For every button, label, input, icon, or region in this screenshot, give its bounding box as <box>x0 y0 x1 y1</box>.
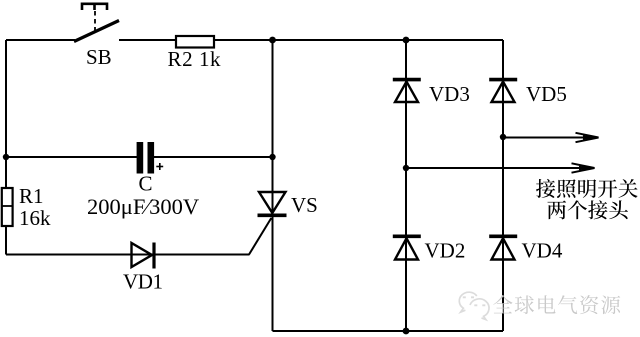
diode VD4 <box>489 236 517 259</box>
watermark logo <box>459 292 489 319</box>
wire: gate lead diagonal <box>249 218 271 255</box>
svg-text:VD5: VD5 <box>526 82 567 106</box>
resistor R2 <box>176 36 214 48</box>
svg-text:16k: 16k <box>19 206 51 230</box>
diode VD2 <box>393 236 421 259</box>
svg-text:VD2: VD2 <box>425 239 466 263</box>
wire: left vertical <box>5 40 7 255</box>
watermark text 全球电气资源 <box>493 295 620 314</box>
svg-text:C: C <box>139 172 153 196</box>
node: junction top rail / VD3 branch <box>403 37 410 44</box>
wire: VD5/VD4 column <box>502 40 504 331</box>
svg-text:VS: VS <box>291 193 318 217</box>
diode VD5 <box>489 80 517 102</box>
wire: top rail left segment <box>6 39 75 41</box>
diode VD3 <box>393 80 421 102</box>
svg-text:VD1: VD1 <box>123 270 163 294</box>
capacitor C plates <box>137 142 155 174</box>
resistor R1 <box>2 188 13 226</box>
svg-text:200μF∕300V: 200μF∕300V <box>87 194 199 219</box>
svg-text:R1: R1 <box>19 184 44 208</box>
wire: VD1 rail <box>6 254 250 256</box>
capacitor polarity + <box>156 163 163 170</box>
svg-text:VD3: VD3 <box>429 82 470 106</box>
svg-text:SB: SB <box>86 45 112 69</box>
svg-text:R2 1k: R2 1k <box>168 47 222 71</box>
wire: top rail right segment <box>119 39 503 41</box>
node: junction VD3 column / output arrow 2 <box>403 165 409 171</box>
wire: output arrow 2 <box>406 163 595 172</box>
wire: output arrow 1 <box>503 133 599 142</box>
node: junction top rail / mid branch <box>269 37 276 44</box>
node: junction bottom rail / VD2 column <box>403 328 410 335</box>
node: junction left vertical / capacitor wire <box>3 154 9 160</box>
thyristor VS <box>258 192 287 215</box>
pushbutton SB <box>74 4 119 42</box>
label 接照明开关 <box>536 179 638 198</box>
svg-text:VD4: VD4 <box>522 239 563 263</box>
wire: VD3/VD2 column <box>405 40 407 331</box>
wire: capacitor rail left <box>6 156 137 158</box>
label 两个接头 <box>547 200 628 219</box>
diode VD1 <box>132 243 155 269</box>
wire: mid vertical through VS <box>272 40 274 331</box>
wire: capacitor rail right <box>154 156 273 158</box>
node: junction VD5 column / output arrow 1 <box>500 134 506 140</box>
node: junction capacitor rail / mid vertical <box>269 154 275 160</box>
wire: bottom rail <box>273 330 504 332</box>
